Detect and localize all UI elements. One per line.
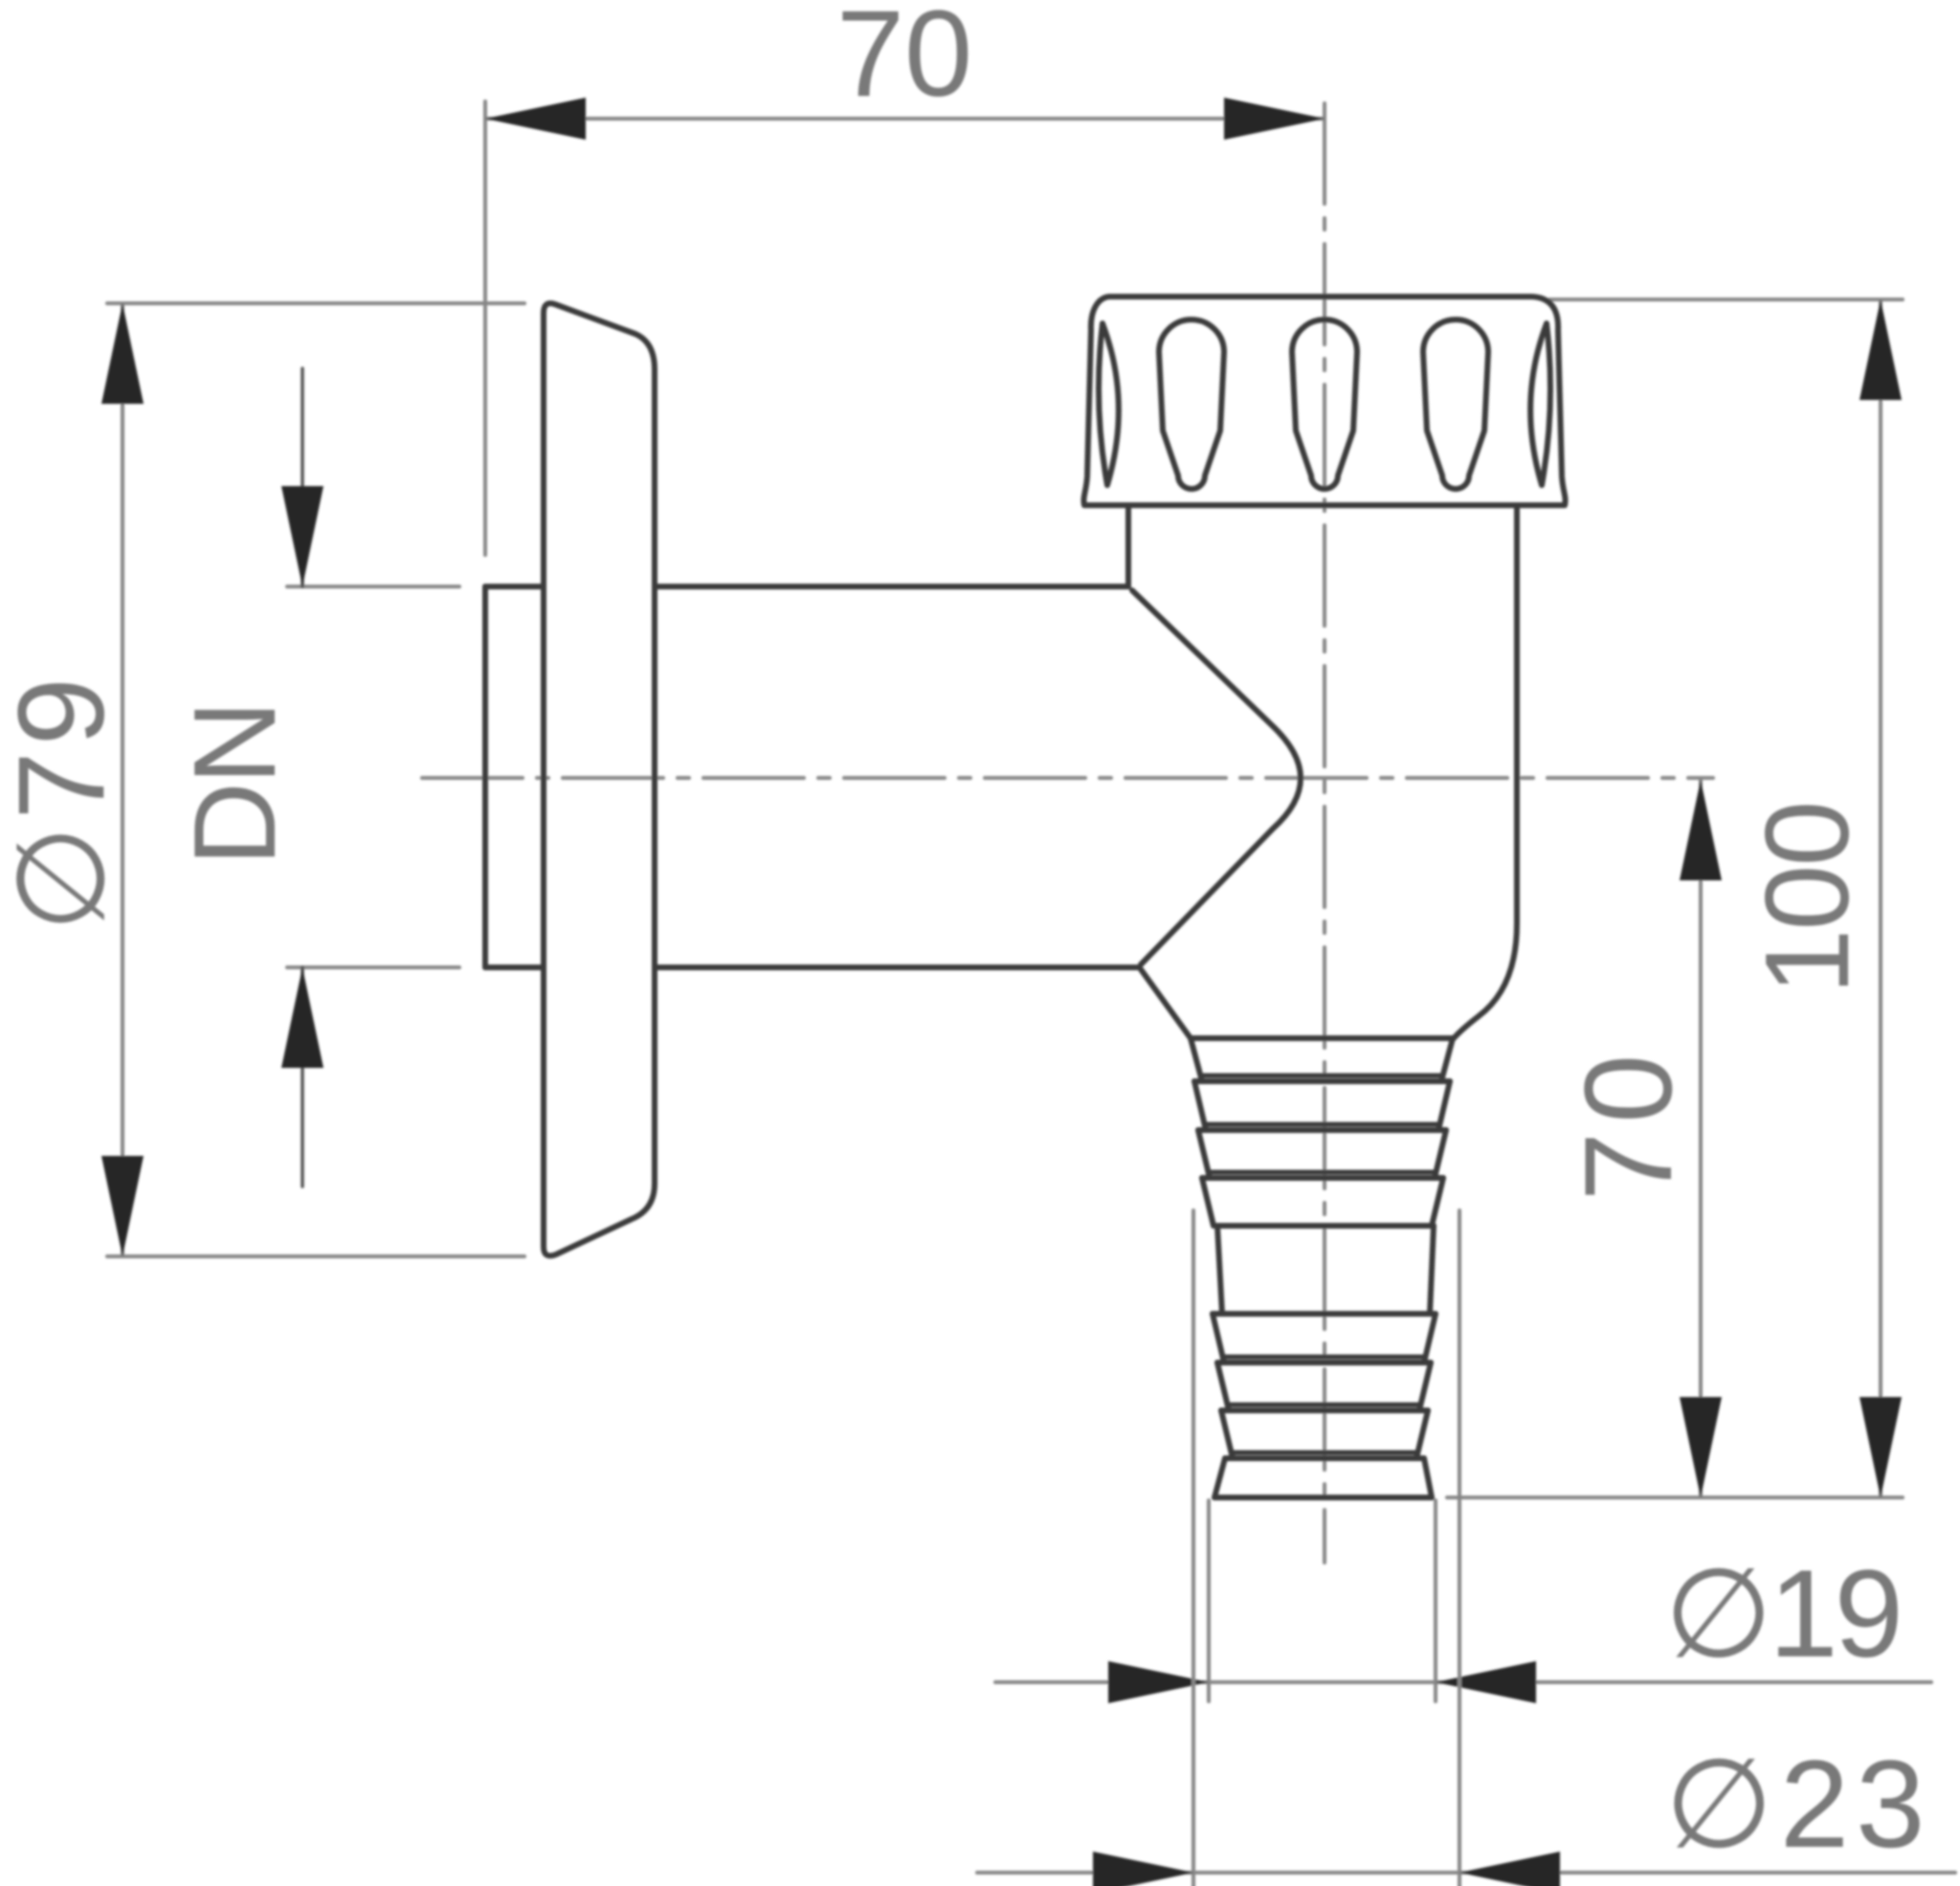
svg-text:DN: DN <box>169 703 300 866</box>
dimension ø23 bottom: dimension line <box>977 1871 1955 1875</box>
hose barb rib line 7 <box>1221 1408 1428 1413</box>
hose barb rib line 3 <box>1198 1127 1446 1133</box>
svg-text:100: 100 <box>1742 803 1874 995</box>
dimension DN: lower tail line <box>301 967 304 1187</box>
dimension DN: top extension line <box>287 585 459 588</box>
dimension ø23 bottom: right extension line <box>1458 1210 1461 1886</box>
hose barb bottom end edge <box>1214 1495 1432 1500</box>
hose barb rib line 5 <box>1213 1311 1436 1317</box>
dimension 100 right: dimension line <box>1879 300 1882 1498</box>
knurled cap outline <box>1083 297 1565 505</box>
dimension ø19 bottom: right arrowhead (points left) <box>1436 1661 1536 1703</box>
dimension DN: upper arrowhead (points down) <box>281 486 323 587</box>
svg-text:∅79: ∅79 <box>0 672 130 932</box>
dimension 70 right: top arrowhead (points up to centerline) <box>1680 780 1722 880</box>
hose barb middle band top line <box>1217 1223 1434 1229</box>
dimension 70 top: left arrowhead <box>485 98 586 140</box>
dimension ø79 left: top arrowhead <box>101 303 144 404</box>
lower transition edge from pipe to hose <box>1141 969 1191 1038</box>
dimension 70 right: dimension line <box>1699 780 1703 1498</box>
shared bottom extension line (hose end plane) <box>1447 1496 1903 1499</box>
dimension 70 right: bottom arrowhead <box>1680 1397 1722 1498</box>
hose barb rib line 8 <box>1225 1455 1424 1461</box>
dimension ø79 left: dimension line <box>121 303 124 1256</box>
hose barb rib line 4 <box>1202 1175 1443 1181</box>
dimension ø79 left: bottom arrowhead <box>101 1156 144 1256</box>
dimension ø23 bottom: left extension line <box>1192 1210 1195 1886</box>
svg-text:∅23: ∅23 <box>1665 1734 1932 1874</box>
wall flange (escutcheon plate) <box>544 303 655 1255</box>
hose barb rib line 1 (top) <box>1191 1035 1453 1041</box>
pipe: left end edge at wall <box>482 587 488 967</box>
knurl slot 2 (on axis) <box>1292 320 1357 489</box>
hose barb rib inner bottom lines (doubled boundaries) <box>1202 1076 1441 1453</box>
dimension DN: upper tail line <box>301 368 304 587</box>
pipe: top edge (right of flange) <box>657 584 1128 589</box>
wire: vertical body axis centerline <box>1323 103 1326 1563</box>
knurl edge sliver left <box>1099 323 1119 485</box>
svg-text:70: 70 <box>1558 1046 1698 1202</box>
dimension 70 top: left extension line (wall plane) <box>483 101 487 555</box>
dimension ø79 left: bottom extension line <box>107 1254 524 1258</box>
dimension ø79 left: top extension line <box>107 301 524 305</box>
dimension 100 right: bottom arrowhead <box>1860 1397 1902 1498</box>
dimension 100 right: top arrowhead <box>1860 300 1902 400</box>
dimension ø19 bottom: left arrowhead (points right) <box>1108 1661 1209 1703</box>
hose barb rib line 6 <box>1217 1360 1431 1365</box>
dimension 100 right: top extension line (cap top plane) <box>1549 298 1903 301</box>
pipe: bottom edge (right of flange) <box>657 965 1139 970</box>
valve body right edge with transition curve to hose <box>1454 505 1517 1038</box>
dimension ø19 bottom: dimension line <box>995 1680 1931 1684</box>
pipe: bottom edge (left of flange) <box>485 965 542 970</box>
hose barb rib line 2 <box>1194 1078 1450 1084</box>
dimension ø19 bottom: left extension line <box>1207 1500 1211 1701</box>
dimension 70 top: dimension line <box>485 117 1325 121</box>
dimension ø23 bottom: right arrowhead (points left) <box>1459 1852 1560 1886</box>
dimension 70 top: right arrowhead <box>1224 98 1325 140</box>
valve neck left edge <box>1125 505 1131 587</box>
svg-text:70: 70 <box>836 0 972 122</box>
hose barb right side zigzag <box>1416 1038 1453 1498</box>
wire: horizontal pipe axis centerline <box>422 776 1713 780</box>
dimension ø19 bottom: right extension line <box>1434 1500 1437 1701</box>
knurl slot 3 <box>1423 320 1488 489</box>
dimension DN: bottom extension line <box>287 965 459 969</box>
knurl edge sliver right <box>1530 323 1550 485</box>
hose barb left side zigzag <box>1191 1038 1233 1498</box>
pipe/body intersection curve <box>1132 590 1301 965</box>
dimension ø23 bottom: left arrowhead (points right) <box>1093 1852 1193 1886</box>
dimension DN: lower arrowhead (points up) <box>281 967 323 1068</box>
knurl slot 1 <box>1159 320 1224 489</box>
svg-text:∅19: ∅19 <box>1664 1543 1900 1683</box>
pipe: top edge (left of flange) <box>485 584 542 589</box>
